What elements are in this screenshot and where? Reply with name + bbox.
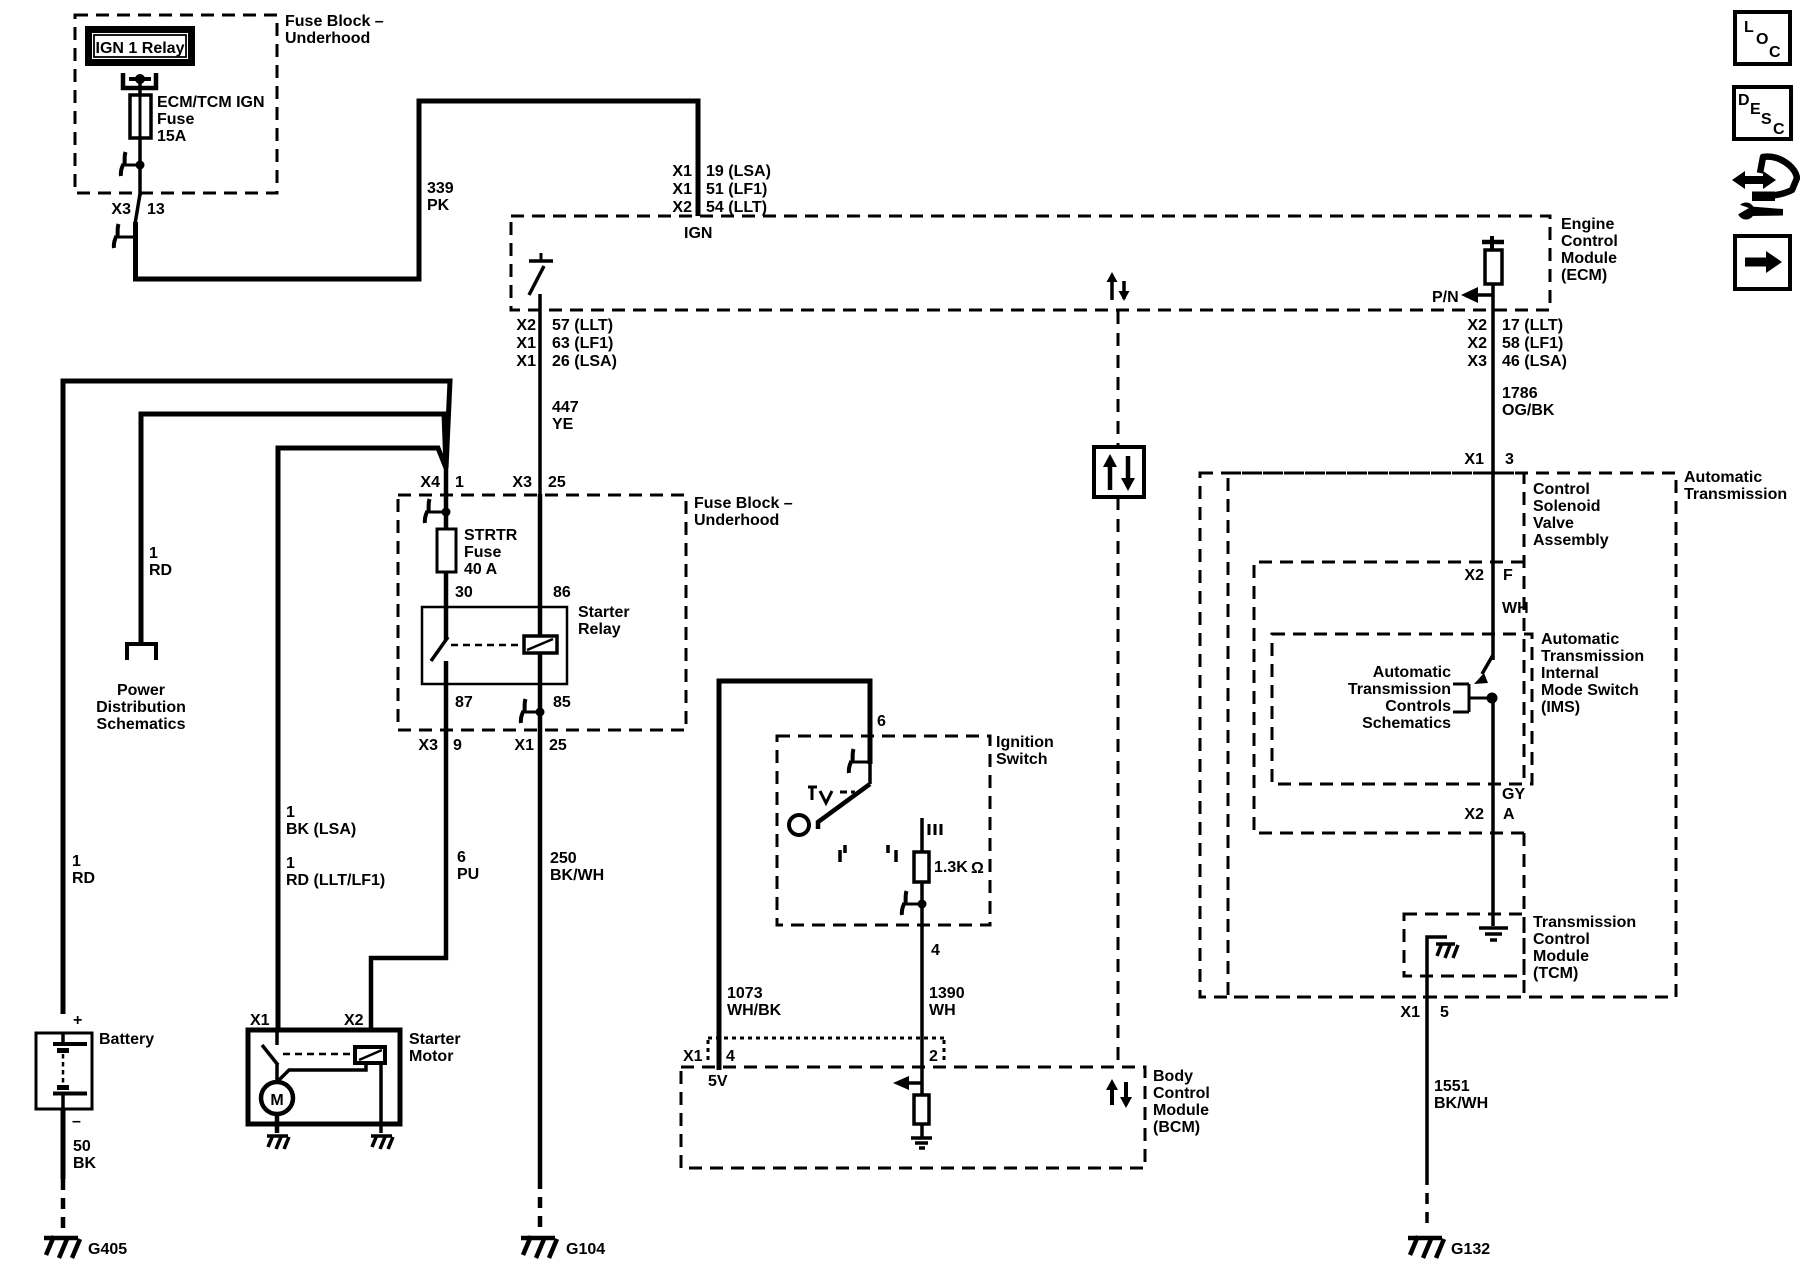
svg-text:Mode Switch: Mode Switch (1541, 682, 1639, 699)
automatic transmission controls schematics reference (1348, 664, 1498, 732)
svg-text:GY: GY (1502, 786, 1525, 803)
starter relay box (422, 604, 630, 684)
svg-text:25: 25 (548, 474, 566, 491)
svg-text:85: 85 (553, 694, 571, 711)
svg-text:1: 1 (286, 855, 295, 872)
svg-text:Solenoid: Solenoid (1533, 498, 1601, 515)
wire fuse to relay pin 30 (444, 572, 449, 640)
svg-text:51 (LF1): 51 (LF1) (706, 181, 767, 198)
svg-text:Control: Control (1561, 233, 1618, 250)
wire 86 side from X3 25 through coil (538, 494, 543, 636)
svg-text:X2: X2 (516, 317, 536, 334)
svg-text:15A: 15A (157, 128, 187, 145)
svg-text:+: + (73, 1012, 82, 1029)
BCM box (681, 1067, 1210, 1168)
motor M (261, 1082, 293, 1114)
ECM pin labels X1 19 (LSA) etc (672, 163, 770, 242)
svg-text:Ω: Ω (971, 860, 984, 877)
X4 1 and X3 25 connector labels (420, 474, 565, 491)
IMS switch blade with arrow (1474, 655, 1493, 684)
starter relay actuator dashed link (451, 644, 524, 647)
icon wrench with arrows (1732, 157, 1797, 220)
icon arrow box (1735, 236, 1790, 289)
svg-text:C: C (1773, 121, 1785, 138)
fuse block underhood box (top left) (75, 13, 384, 193)
svg-text:26 (LSA): 26 (LSA) (552, 353, 617, 370)
svg-text:25: 25 (549, 737, 567, 754)
svg-text:WH/BK: WH/BK (727, 1002, 782, 1019)
starter motor box (248, 1012, 461, 1124)
svg-text:Battery: Battery (99, 1031, 154, 1048)
svg-text:ECM/TCM IGN: ECM/TCM IGN (157, 94, 265, 111)
svg-text:87: 87 (455, 694, 473, 711)
svg-text:(ECM): (ECM) (1561, 267, 1607, 284)
ground G132 (1408, 1236, 1490, 1258)
svg-text:X1: X1 (1400, 1004, 1420, 1021)
svg-text:Relay: Relay (578, 621, 621, 638)
ignition resistor 1.3K (914, 818, 984, 882)
svg-text:Transmission: Transmission (1533, 914, 1636, 931)
svg-text:Underhood: Underhood (694, 512, 779, 529)
wire 339 PK from fuse to ECM IGN pin (136, 101, 699, 279)
svg-text:4: 4 (726, 1048, 735, 1065)
svg-text:BK (LSA): BK (LSA) (286, 821, 356, 838)
svg-text:X2: X2 (1464, 806, 1484, 823)
svg-text:PU: PU (457, 866, 479, 883)
svg-text:X3: X3 (1467, 353, 1487, 370)
svg-text:1: 1 (455, 474, 464, 491)
svg-text:X1: X1 (1464, 451, 1484, 468)
wire 447 YE from ECM to fuse block (516, 294, 616, 496)
clip connector at ignition pin 6 (849, 749, 870, 773)
IGN 1 relay (85, 26, 195, 66)
svg-text:L: L (1744, 19, 1754, 36)
svg-text:Underhood: Underhood (285, 30, 370, 47)
svg-text:X1: X1 (514, 737, 534, 754)
X3 13 connector labels (111, 201, 164, 218)
svg-text:19 (LSA): 19 (LSA) (706, 163, 771, 180)
svg-text:M: M (270, 1092, 283, 1109)
svg-text:X3: X3 (111, 201, 131, 218)
wire 1 BK / 1 RD labels (battery to starter) (286, 804, 385, 889)
control solenoid valve assembly box (1228, 473, 1609, 997)
svg-text:2: 2 (929, 1048, 938, 1065)
svg-text:Controls: Controls (1385, 698, 1451, 715)
svg-text:G104: G104 (566, 1241, 605, 1258)
battery feed wires converging at X4 1 (63, 381, 450, 1032)
svg-text:Assembly: Assembly (1533, 532, 1609, 549)
svg-text:F: F (1503, 567, 1513, 584)
connector terminal below IGN 1 relay (123, 73, 156, 88)
svg-text:1: 1 (286, 804, 295, 821)
svg-text:13: 13 (147, 201, 165, 218)
svg-text:Body: Body (1153, 1068, 1193, 1085)
icon LOC box (1735, 12, 1790, 64)
coil ground wire (379, 1062, 383, 1133)
svg-text:57 (LLT): 57 (LLT) (552, 317, 613, 334)
svg-text:X1: X1 (672, 163, 692, 180)
power distribution schematics terminal (96, 644, 186, 733)
ignition switch box (777, 734, 1054, 925)
svg-text:(BCM): (BCM) (1153, 1119, 1200, 1136)
svg-text:Automatic: Automatic (1373, 664, 1451, 681)
svg-text:58 (LF1): 58 (LF1) (1502, 335, 1563, 352)
starter actuator dashed link (283, 1053, 355, 1056)
IMS box (1272, 631, 1644, 784)
svg-text:BK/WH: BK/WH (1434, 1095, 1488, 1112)
svg-text:X4: X4 (420, 474, 440, 491)
svg-text:17 (LLT): 17 (LLT) (1502, 317, 1563, 334)
svg-text:1.3K: 1.3K (934, 859, 968, 876)
svg-text:X3: X3 (512, 474, 532, 491)
svg-text:OG/BK: OG/BK (1502, 402, 1555, 419)
svg-text:54 (LLT): 54 (LLT) (706, 199, 767, 216)
svg-text:Internal: Internal (1541, 665, 1599, 682)
wire 1 RD battery label (72, 853, 95, 887)
serial data box with arrows (1094, 447, 1144, 497)
svg-text:250: 250 (550, 850, 577, 867)
svg-text:RD: RD (72, 870, 95, 887)
svg-text:Module: Module (1153, 1102, 1209, 1119)
starter relay contact blade (431, 637, 448, 661)
svg-text:Transmission: Transmission (1348, 681, 1451, 698)
fuse ECM/TCM IGN 15A (130, 94, 265, 145)
svg-text:3: 3 (1505, 451, 1514, 468)
svg-text:O: O (1756, 31, 1768, 48)
svg-text:RD: RD (149, 562, 172, 579)
svg-text:P/N: P/N (1432, 289, 1459, 306)
svg-text:6: 6 (877, 713, 886, 730)
BCM updown arrows (1106, 1079, 1132, 1108)
svg-text:RD (LLT/LF1): RD (LLT/LF1) (286, 872, 385, 889)
svg-text:Automatic: Automatic (1541, 631, 1619, 648)
svg-text:Transmission: Transmission (1684, 486, 1787, 503)
svg-text:Module: Module (1533, 948, 1589, 965)
svg-text:G405: G405 (88, 1241, 127, 1258)
clip connector below X3 13 (114, 224, 136, 248)
ECM internal supply T-bar (1482, 236, 1504, 250)
svg-text:1786: 1786 (1502, 385, 1538, 402)
svg-text:Schematics: Schematics (97, 716, 186, 733)
svg-text:Starter: Starter (409, 1031, 461, 1048)
fuse STRTR 40 A (437, 527, 518, 578)
svg-text:Starter: Starter (578, 604, 630, 621)
svg-text:X2: X2 (672, 199, 692, 216)
svg-text:X1: X1 (516, 335, 536, 352)
BCM pull-down resistor (914, 1083, 929, 1137)
TCM box (1404, 914, 1636, 982)
clip connector on wire inside fuse block (121, 152, 145, 176)
svg-text:Engine: Engine (1561, 216, 1614, 233)
chassis ground below coil (371, 1135, 393, 1149)
svg-text:Fuse: Fuse (157, 111, 194, 128)
clip connector above STRTR fuse (425, 499, 451, 523)
svg-text:339: 339 (427, 180, 454, 197)
svg-text:X3: X3 (418, 737, 438, 754)
ground G104 (521, 1236, 605, 1258)
ignition switch contact inside ECM (529, 253, 553, 295)
svg-text:IGN 1 Relay: IGN 1 Relay (96, 40, 185, 57)
wire from relay through fuse (138, 79, 142, 196)
wire 1551 BK/WH to G132 (1400, 976, 1488, 1230)
svg-text:6: 6 (457, 849, 466, 866)
svg-text:X2: X2 (344, 1012, 364, 1029)
svg-text:A: A (1503, 806, 1515, 823)
link from contact to coil (278, 1063, 366, 1081)
svg-text:5: 5 (1440, 1004, 1449, 1021)
wire coil to 85 clip (538, 653, 543, 731)
svg-text:Distribution: Distribution (96, 699, 186, 716)
wire 6 PU relay to starter solenoid (371, 731, 479, 1032)
svg-text:63 (LF1): 63 (LF1) (552, 335, 613, 352)
svg-text:1551: 1551 (1434, 1078, 1470, 1095)
small updown arrows at ECM boundary (1107, 272, 1130, 301)
svg-text:BK/WH: BK/WH (550, 867, 604, 884)
svg-text:Module: Module (1561, 250, 1617, 267)
svg-text:PK: PK (427, 197, 450, 214)
wire GY to TCM ground (1464, 698, 1525, 926)
starter solenoid contact blade (262, 1032, 278, 1083)
svg-text:C: C (1769, 44, 1781, 61)
svg-text:5V: 5V (708, 1073, 728, 1090)
svg-text:STRTR: STRTR (464, 527, 518, 544)
wire 250 BK/WH relay 85 to G104 (540, 731, 604, 1228)
svg-text:WH: WH (1502, 600, 1529, 617)
svg-text:Control: Control (1153, 1085, 1210, 1102)
ground G405 (44, 1236, 127, 1258)
svg-text:Fuse Block –: Fuse Block – (285, 13, 384, 30)
svg-text:WH: WH (929, 1002, 956, 1019)
svg-text:X2: X2 (1464, 567, 1484, 584)
svg-text:Motor: Motor (409, 1048, 453, 1065)
motor ground wire (275, 1113, 280, 1133)
svg-text:40 A: 40 A (464, 561, 498, 578)
svg-text:Control: Control (1533, 481, 1590, 498)
svg-text:1390: 1390 (929, 985, 965, 1002)
svg-text:X1: X1 (516, 353, 536, 370)
svg-text:X1: X1 (250, 1012, 270, 1029)
svg-text:(TCM): (TCM) (1533, 965, 1578, 982)
fuse block underhood box 2 (starter relay) (398, 495, 793, 730)
wire 87 to X3 9 (444, 661, 449, 731)
svg-text:50: 50 (73, 1138, 91, 1155)
svg-text:30: 30 (455, 584, 473, 601)
ignition position marks I II III (840, 824, 941, 862)
ECM pull-up resistor (1485, 250, 1502, 284)
svg-text:Fuse Block –: Fuse Block – (694, 495, 793, 512)
BCM signal arrow (893, 1076, 922, 1090)
svg-text:1: 1 (72, 853, 81, 870)
ignition switch blade (789, 762, 870, 835)
ECM pin labels X2 17 (1467, 317, 1566, 370)
svg-text:S: S (1761, 111, 1772, 128)
slanted wire through X3/13 (135, 194, 140, 224)
TCM chassis ground with wire (1427, 937, 1458, 976)
P/N arrow (1432, 287, 1493, 306)
wire 1390 WH to BCM (922, 904, 965, 1083)
svg-text:G132: G132 (1451, 1241, 1490, 1258)
svg-text:YE: YE (552, 416, 574, 433)
battery (36, 1012, 154, 1130)
svg-text:D: D (1738, 92, 1750, 109)
svg-text:9: 9 (453, 737, 462, 754)
clip connector below resistor (902, 882, 927, 915)
svg-text:Fuse: Fuse (464, 544, 501, 561)
X3 9 / X1 25 labels (418, 737, 566, 754)
starter solenoid coil (355, 1047, 385, 1063)
svg-text:IGN: IGN (684, 225, 712, 242)
svg-text:Automatic: Automatic (1684, 469, 1762, 486)
wire 1786 OG/BK (1464, 311, 1554, 660)
ignition key glyph (808, 786, 855, 803)
earth ground inside TCM (1479, 928, 1508, 940)
svg-text:1073: 1073 (727, 985, 763, 1002)
svg-text:86: 86 (553, 584, 571, 601)
svg-text:Ignition: Ignition (996, 734, 1054, 751)
svg-text:X1: X1 (672, 181, 692, 198)
ECM dashed box (511, 216, 1618, 310)
svg-text:Valve: Valve (1533, 515, 1574, 532)
svg-text:1: 1 (149, 545, 158, 562)
svg-text:4: 4 (931, 942, 940, 959)
BCM earth ground (911, 1138, 932, 1148)
svg-text:Control: Control (1533, 931, 1590, 948)
clip connector at relay pin 85 (521, 699, 545, 723)
wire below resistor (1491, 284, 1495, 311)
svg-text:(IMS): (IMS) (1541, 699, 1580, 716)
svg-text:X1: X1 (683, 1048, 703, 1065)
inner transmission box X2 F / X2 A (1254, 562, 1529, 833)
BCM X1 connector dotted line (683, 1038, 944, 1065)
dashed network wire from ECM to BCM (1117, 311, 1120, 1067)
svg-text:BK: BK (73, 1155, 97, 1172)
svg-text:E: E (1750, 101, 1761, 118)
svg-text:–: – (72, 1113, 81, 1130)
svg-text:Transmission: Transmission (1541, 648, 1644, 665)
svg-text:46 (LSA): 46 (LSA) (1502, 353, 1567, 370)
automatic transmission outer box (1200, 469, 1787, 997)
svg-text:Power: Power (117, 682, 165, 699)
svg-text:Schematics: Schematics (1362, 715, 1451, 732)
icon DESC box (1734, 87, 1791, 139)
svg-text:X2: X2 (1467, 335, 1487, 352)
starter relay coil (524, 636, 557, 653)
svg-text:447: 447 (552, 399, 579, 416)
svg-text:X2: X2 (1467, 317, 1487, 334)
chassis ground below motor (267, 1135, 289, 1149)
wire 1073 WH/BK ignition to BCM 5V (719, 681, 886, 1070)
wire 50 BK battery to G405 (63, 1109, 97, 1228)
wire from X4 1 into fuse block (444, 466, 449, 530)
svg-text:Switch: Switch (996, 751, 1048, 768)
